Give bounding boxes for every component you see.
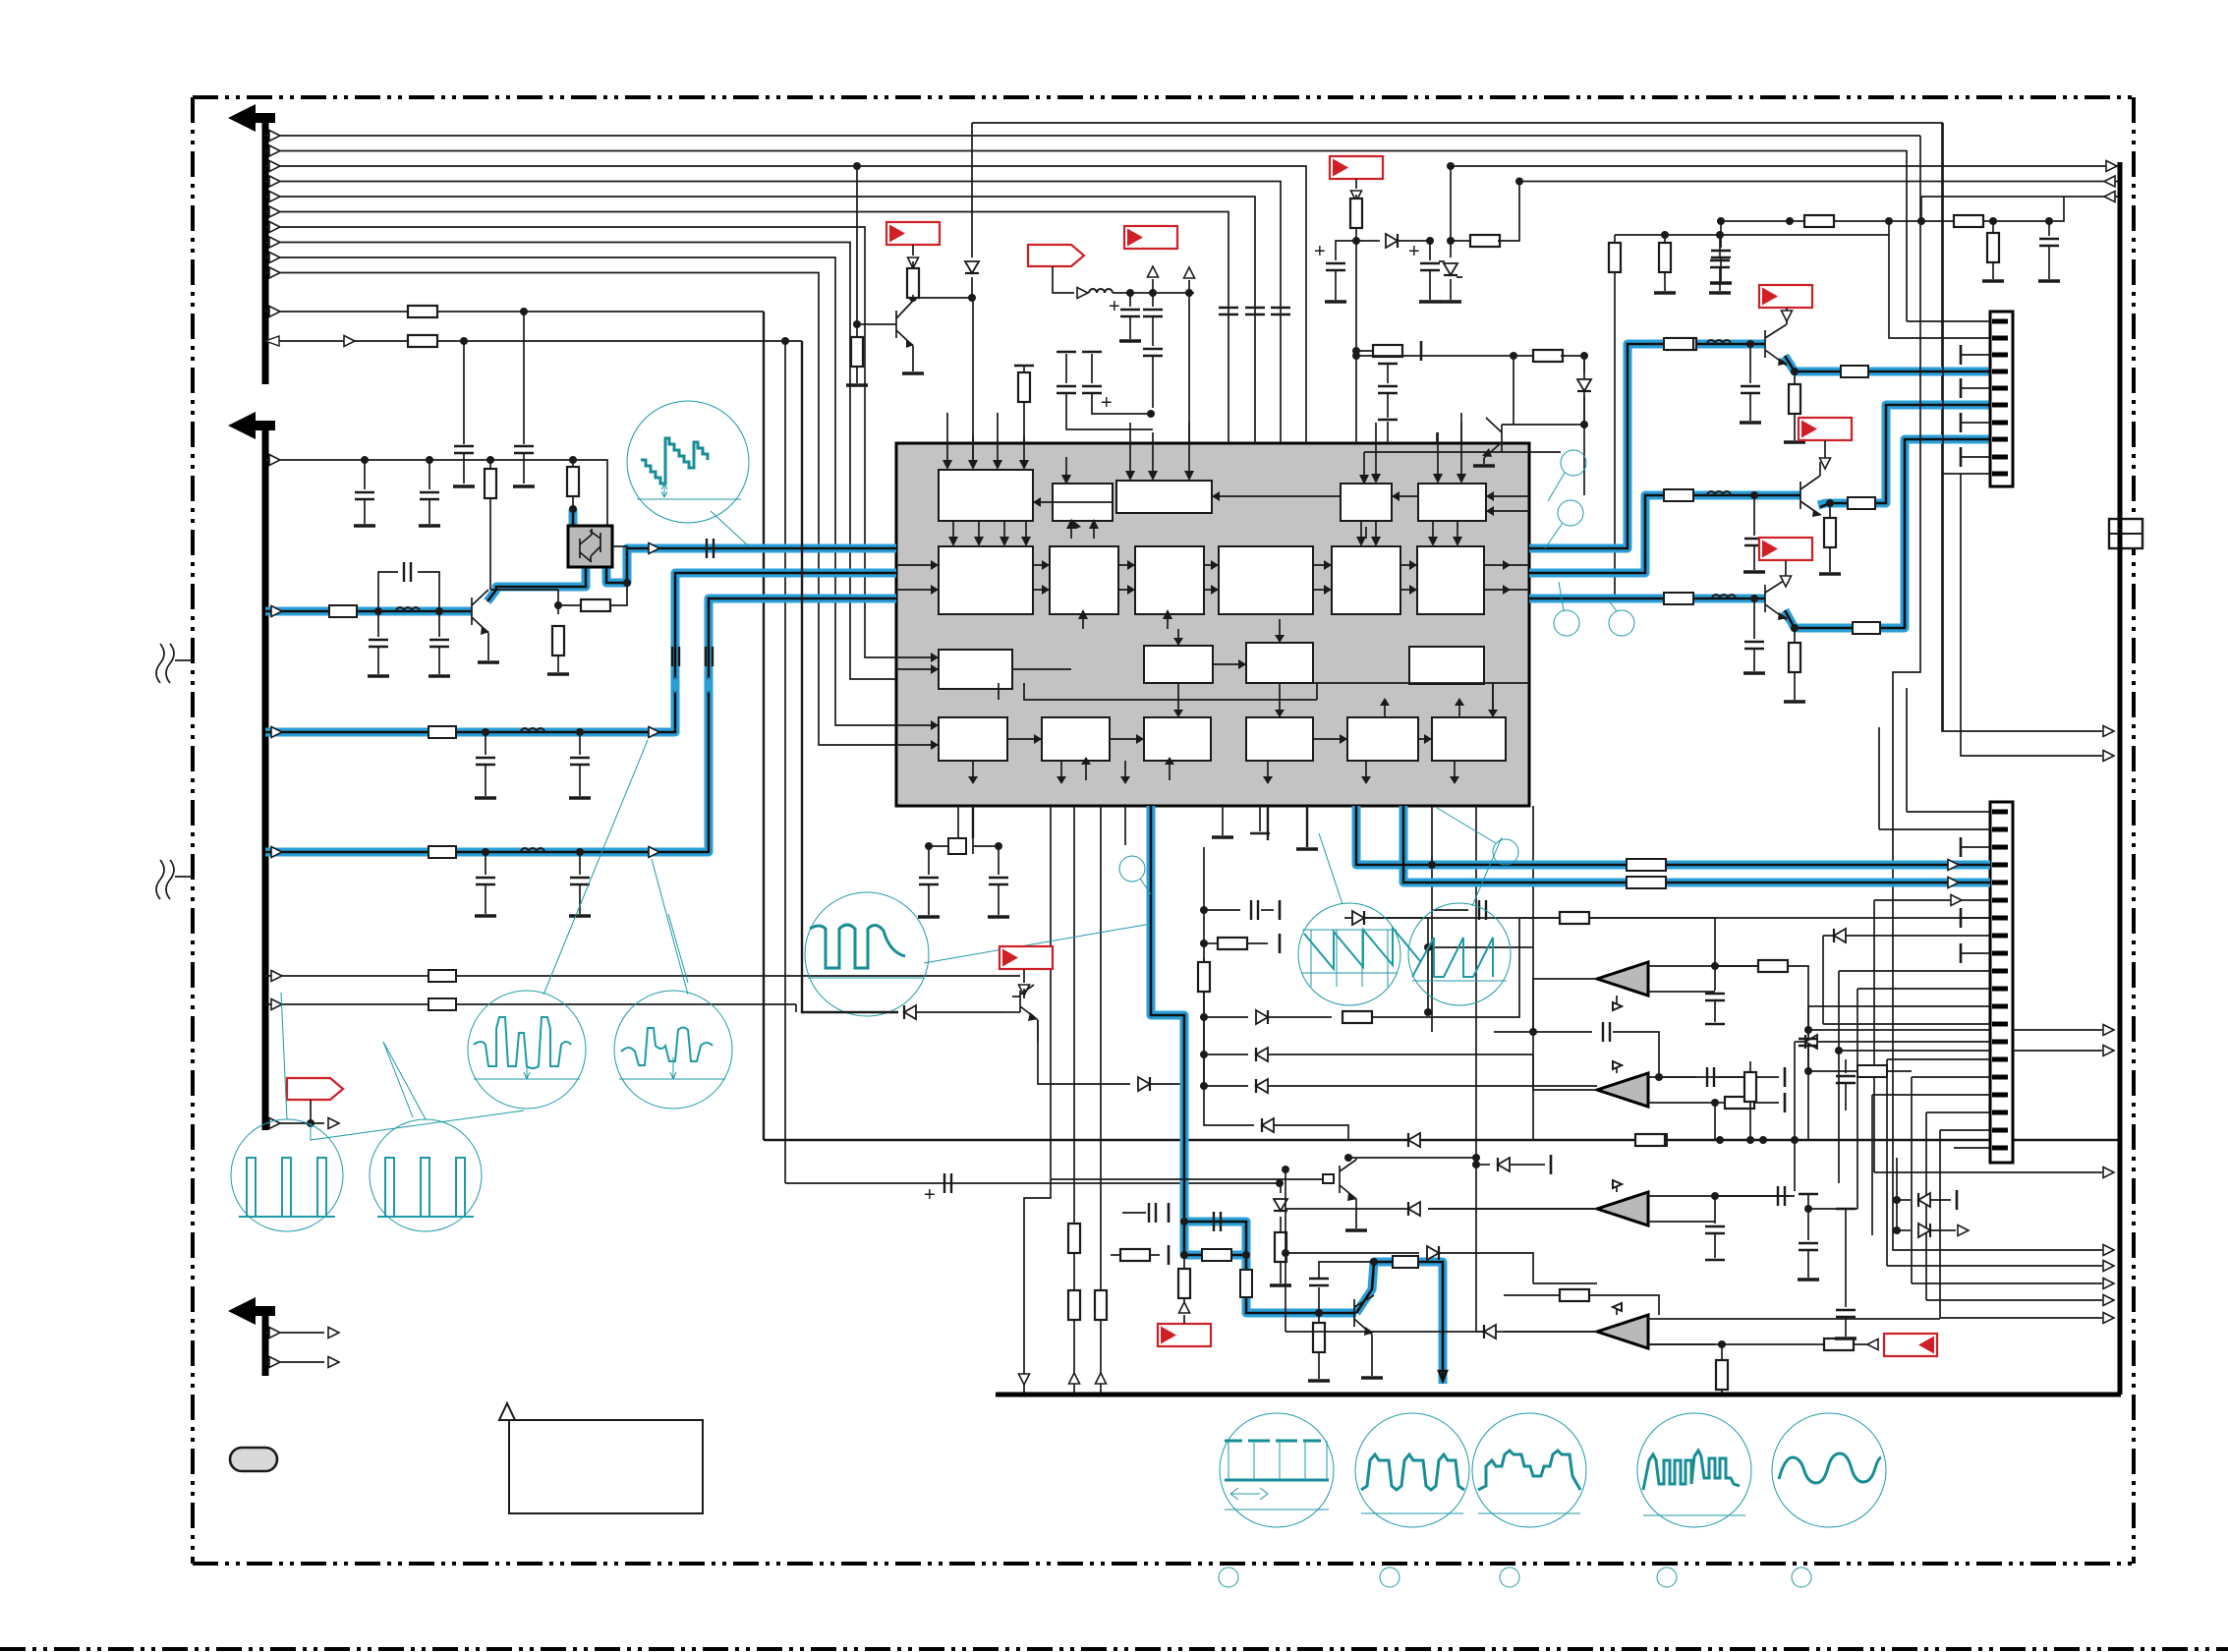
diode feed U2 xyxy=(1494,1031,1533,1033)
IC internal long routes xyxy=(999,452,1561,717)
wire L7 xyxy=(265,227,896,657)
capacitor C-chB xyxy=(1753,495,1755,536)
capacitor C-b2 xyxy=(428,460,430,489)
capacitor C+ f5b xyxy=(1429,241,1431,260)
diode D-blu xyxy=(1280,1183,1282,1193)
resistor R-u5b xyxy=(1721,1344,1723,1361)
wire B2L6 xyxy=(265,1004,796,1012)
waveform circle left pulse 1 xyxy=(231,1119,343,1231)
resistor R-icb1 xyxy=(1068,1224,1080,1253)
resistor R-chA xyxy=(1791,368,1799,375)
capacitor C-rm xyxy=(1845,1059,1847,1073)
wire vert 1954 xyxy=(1893,136,2102,1250)
diode row d1 xyxy=(1200,1013,1208,1021)
wire B2L1 xyxy=(265,460,607,526)
transistor Q-1200 xyxy=(1317,1158,1356,1228)
wire pin916 xyxy=(1874,900,1990,1172)
transistor Q-blu xyxy=(1354,1295,1374,1376)
resistor R-u2top xyxy=(1428,917,1561,919)
wire from box to diode row xyxy=(802,341,898,1012)
waveform circle staircase xyxy=(627,401,749,523)
resistor R-h1 xyxy=(1356,350,1375,352)
svg-text:+: + xyxy=(924,1184,936,1206)
resistor R-u3 xyxy=(1715,1102,1726,1104)
blue trace input3 xyxy=(265,598,896,852)
capacitor C-chA xyxy=(1749,344,1751,383)
waveform circle left pulse 2 xyxy=(370,1119,482,1231)
wire top feed xyxy=(972,123,2102,731)
IC row1-row2 arrows xyxy=(953,521,1457,629)
resistor R-1225b xyxy=(1203,958,1205,965)
wire cluster y225 xyxy=(1721,221,1990,338)
blue trace vert main xyxy=(1151,806,1443,1384)
IC block row3 xyxy=(939,650,1012,689)
wire L1 xyxy=(265,135,1920,137)
diode feeds U4/U5 xyxy=(1408,1202,1420,1216)
diode D-top xyxy=(965,261,979,273)
stub pin T c xyxy=(1961,952,1990,954)
resistor R-tr1 xyxy=(1451,240,1472,242)
red flag F10 xyxy=(1000,946,1053,969)
capacitor C-blu2 xyxy=(1318,1287,1320,1313)
probe circle blue loop xyxy=(1119,856,1145,882)
bus 3 arrow xyxy=(228,1297,275,1325)
resistor R-u2fb xyxy=(1715,965,1759,967)
resistor R-f5 xyxy=(1350,199,1362,228)
capacitor C-u3 xyxy=(1659,1076,1696,1078)
wire L9 xyxy=(265,257,896,725)
blue trace pair to CN2 xyxy=(1356,806,1990,883)
opamp U3 xyxy=(1597,1073,1648,1107)
waveform circle bot4 xyxy=(1637,1413,1751,1527)
capacitor C-L10 xyxy=(1271,308,1290,314)
diode row d2 xyxy=(1200,1051,1208,1058)
diode row d4 xyxy=(1204,1086,1254,1125)
wire pin10 xyxy=(1943,123,1990,731)
capacitor C-u4 xyxy=(1715,1195,1759,1197)
capacitor C pair t2 xyxy=(1082,351,1102,353)
diode D-f5 xyxy=(1356,240,1380,242)
resistor R-blu2 xyxy=(1318,1313,1320,1324)
blue trace ch-A xyxy=(1529,344,1990,548)
resistor R-dualbase xyxy=(610,583,627,605)
transistor Q-chC xyxy=(1765,579,1787,620)
resistor R-rm1 xyxy=(1749,1061,1751,1073)
capacitor C e2 stack xyxy=(1152,293,1154,307)
wire pin1060 arrow xyxy=(1795,1041,1990,1043)
diode D-mid xyxy=(1583,356,1585,373)
wire L5 xyxy=(265,197,1255,443)
waveform circle mid chop1 xyxy=(468,991,586,1109)
diode D-b6 xyxy=(904,1005,916,1019)
burst waveform circle xyxy=(805,892,929,1016)
red flag F7 xyxy=(1759,285,1812,308)
capacitor C-L11 xyxy=(523,312,525,444)
diode D-cn2b xyxy=(1893,1226,1901,1234)
wire cn2 pin2 xyxy=(1879,727,1990,829)
red flag F9 xyxy=(1799,418,1852,440)
zener D-z xyxy=(1447,237,1455,245)
capacitor C+ e1 xyxy=(1129,293,1131,307)
break squiggle left upper xyxy=(156,644,193,683)
capacitor C-v4 xyxy=(1719,235,1721,257)
red flag F5 xyxy=(1330,156,1383,179)
resistor R-F2 xyxy=(912,261,914,271)
stub pin T b xyxy=(1961,917,1990,919)
capacitor C-in1b xyxy=(438,611,440,637)
wire vert 1225 xyxy=(1203,847,1205,1086)
resistor R-rm3 xyxy=(1794,1140,1796,1179)
wire pennant out xyxy=(265,1122,324,1124)
teal leaders mid xyxy=(281,993,426,1119)
dual transistor pack Q-dual xyxy=(568,526,612,567)
bus 1 arrow xyxy=(228,104,275,132)
capacitor C-x2 xyxy=(998,846,1000,875)
waveform circle mid chop2 xyxy=(614,991,732,1109)
resistor R-rm2 xyxy=(1807,1005,1809,1007)
capacitor C-fb bridge xyxy=(378,572,439,611)
diode d-top feed xyxy=(1344,917,1428,919)
capacitor C-u5 xyxy=(1648,1343,1872,1345)
resistor R-v3 xyxy=(1664,235,1666,244)
svg-text:+: + xyxy=(1408,241,1420,262)
small circles row xyxy=(1219,1567,1238,1587)
IC row4 chain xyxy=(973,683,1493,780)
capacitor C-in3b xyxy=(579,852,581,875)
waveform circle bot2 xyxy=(1355,1413,1469,1527)
transistor Q-chA xyxy=(1765,324,1787,366)
svg-text:+: + xyxy=(1101,392,1113,414)
stub pin7 xyxy=(1961,422,1990,424)
resistor R-dblu xyxy=(1275,1232,1286,1262)
vertical drops xyxy=(1355,241,1357,356)
wire out y769 xyxy=(1961,474,2102,756)
wire up-right xyxy=(1450,166,1452,241)
resistor R-y1160b xyxy=(1857,1065,1887,1077)
wire drop to IC xyxy=(1188,293,1190,443)
red flag F12 (mirrored) xyxy=(1884,1334,1937,1356)
wire base row xyxy=(1356,355,1514,357)
wire L10 xyxy=(265,273,896,746)
wire ic-bot verticals xyxy=(958,806,1533,1395)
transistor Q-top2 xyxy=(1484,356,1514,464)
terminal box on right bus xyxy=(2109,519,2142,548)
IC top input arrows xyxy=(947,413,1024,462)
blue trace input1 xyxy=(265,509,896,611)
transistor Q-chB xyxy=(1800,476,1820,515)
capacitor C-x1 xyxy=(928,846,930,875)
mesh caps bottom right xyxy=(1807,1228,1809,1240)
resistor R-blu1 xyxy=(1183,1255,1185,1270)
teal leaders xyxy=(543,740,688,995)
waveform circle saw1 xyxy=(1298,903,1400,1005)
resistor R-b3 xyxy=(489,460,491,470)
wire L8 xyxy=(265,243,896,680)
resistor R-b4 xyxy=(572,460,574,470)
diode row d3 xyxy=(1200,1082,1208,1090)
diode feed row y1275 xyxy=(1285,1252,1419,1254)
arrows up at bus xyxy=(1019,1374,1030,1385)
resistor R-u3b xyxy=(1597,1139,1636,1141)
svg-text:+: + xyxy=(1314,241,1326,262)
transistor Q-mid xyxy=(1012,985,1038,1042)
resistor R-left xyxy=(853,162,861,170)
red flag F3 xyxy=(1124,226,1177,249)
wires pins 1078-1168 xyxy=(1872,1059,1990,1318)
wire drops into IC top right xyxy=(1356,356,1461,443)
break squiggle left lower xyxy=(156,860,193,899)
note box xyxy=(509,1420,703,1513)
capacitor C-b1 xyxy=(364,460,366,489)
capacitor C-L8 xyxy=(1219,308,1238,314)
capacitor C-cn2a xyxy=(1431,857,1433,865)
resistor R-icb2 xyxy=(1095,1290,1107,1320)
stub pin3 xyxy=(1961,354,1990,356)
wire L12 xyxy=(265,340,802,342)
wire pin952 arrow left xyxy=(1823,935,1990,937)
wire B3L1 xyxy=(265,1332,324,1334)
capacitor C-t225 xyxy=(2048,221,2050,236)
resistor R-ic-top xyxy=(1014,365,1034,367)
red flag F11 xyxy=(1158,1324,1211,1346)
power arrow up A1 xyxy=(1152,279,1154,293)
probe circles near IC xyxy=(1561,450,1586,476)
capacitor C+ y1204 xyxy=(944,1173,951,1193)
red flag F2 xyxy=(886,222,940,245)
IC block row1 xyxy=(939,470,1033,521)
capacitor C-chC xyxy=(1753,598,1755,639)
right bottom outputs xyxy=(1874,1171,2102,1173)
svg-text:+: + xyxy=(1109,296,1120,317)
capacitor C-in2b xyxy=(579,732,581,755)
wire t225 xyxy=(1921,197,1955,221)
wire cn2 pin1 xyxy=(1907,688,1990,812)
red flag F8 xyxy=(1759,538,1812,560)
capacitor C-1225 xyxy=(1200,906,1208,914)
resistor R-t225 xyxy=(1992,221,1994,234)
opamp U2 xyxy=(1597,962,1648,996)
waveform circle bot1 xyxy=(1220,1413,1334,1527)
IC block row2 xyxy=(939,546,1033,614)
capacitor C-u2a xyxy=(1714,966,1716,991)
capacitor C-in1a xyxy=(377,611,379,637)
resistor R-u5top xyxy=(1504,1294,1561,1296)
wire pin1 xyxy=(1907,320,1990,322)
teal leader lines xyxy=(311,914,688,1140)
bus 2 arrow xyxy=(228,412,275,439)
capacitor C-u2b xyxy=(1532,1031,1534,1033)
capacitor C-loopL xyxy=(1122,1212,1146,1214)
waveform circle bot5 xyxy=(1772,1413,1886,1527)
wire L3 xyxy=(265,166,1306,443)
opamp U5 xyxy=(1597,1315,1648,1348)
wire zener drop xyxy=(971,123,973,257)
resistor R-v2 xyxy=(1614,235,1616,244)
red pennant P1 xyxy=(1028,245,1084,266)
wire B2L5 xyxy=(265,975,1020,977)
capacitor C-L12 xyxy=(463,341,465,444)
transistor Q-in1 xyxy=(439,590,488,660)
capacitor C-in2a xyxy=(485,732,486,755)
IC row3 connections xyxy=(896,619,1280,745)
resistor R-loopL xyxy=(1111,1254,1121,1256)
capacitor C-L9 xyxy=(1245,308,1265,314)
diode D-cn2a xyxy=(1893,1196,1901,1204)
resistor R-chB xyxy=(1826,499,1834,507)
capacitor C pair t1 xyxy=(1057,351,1076,353)
wires pins 988-1060 xyxy=(1808,936,1990,1209)
resistor R-1225 xyxy=(1200,940,1208,947)
wire L4 xyxy=(265,182,1281,444)
wire L11 xyxy=(265,311,764,313)
blue trace ch-B xyxy=(1529,405,1990,573)
connector CN1 xyxy=(1907,123,2013,731)
wire L2 xyxy=(265,151,1907,322)
stub pin9 xyxy=(1961,456,1990,458)
stub pin T a xyxy=(1961,846,1990,848)
blue trace ch-C xyxy=(1529,439,1990,628)
capacitor C-h1 xyxy=(1387,364,1389,383)
inductor L-top xyxy=(1089,289,1113,293)
IC block row4 xyxy=(939,717,1007,761)
note pill xyxy=(230,1448,277,1471)
capacitor C+ f5 xyxy=(1336,241,1356,260)
ground bus xyxy=(996,1393,2121,1397)
waveform circle bot3 xyxy=(1472,1413,1586,1527)
power arrow up A2 xyxy=(1188,280,1190,293)
blue trace input2 xyxy=(265,573,896,732)
waveform circle saw2 xyxy=(1408,903,1511,1005)
crystal X1 xyxy=(929,838,1000,854)
diode D-u3 xyxy=(1532,1054,1534,1140)
wire long y1160 xyxy=(764,1139,2120,1141)
IC U1 body xyxy=(896,443,1529,806)
wire B3L2 xyxy=(265,1361,324,1363)
node collector xyxy=(909,294,917,302)
stub pin5 xyxy=(1961,387,1990,389)
transistor Q-top1 xyxy=(857,301,913,371)
teal leaders saw xyxy=(1319,833,1502,906)
capacitor C-in3a xyxy=(485,852,486,875)
resistor R-rm4 xyxy=(1794,1179,1796,1191)
capacitor C-rm2 xyxy=(1807,1006,1809,1036)
opamp U4 xyxy=(1597,1192,1648,1225)
resistor R-chC xyxy=(1791,624,1799,632)
IC row2 chain arrows xyxy=(896,565,1529,590)
wires U2 surroundings xyxy=(1428,947,1533,1012)
wire L6 xyxy=(265,212,1228,444)
wire long y1204 xyxy=(785,1182,1280,1184)
red pennant P2 xyxy=(287,1078,343,1100)
capacitor C-L6 xyxy=(1720,221,1722,248)
connector CN2 xyxy=(1990,802,2013,1163)
right bus vertical xyxy=(2118,162,2123,1395)
wire y1200 left xyxy=(1051,1178,1317,1180)
